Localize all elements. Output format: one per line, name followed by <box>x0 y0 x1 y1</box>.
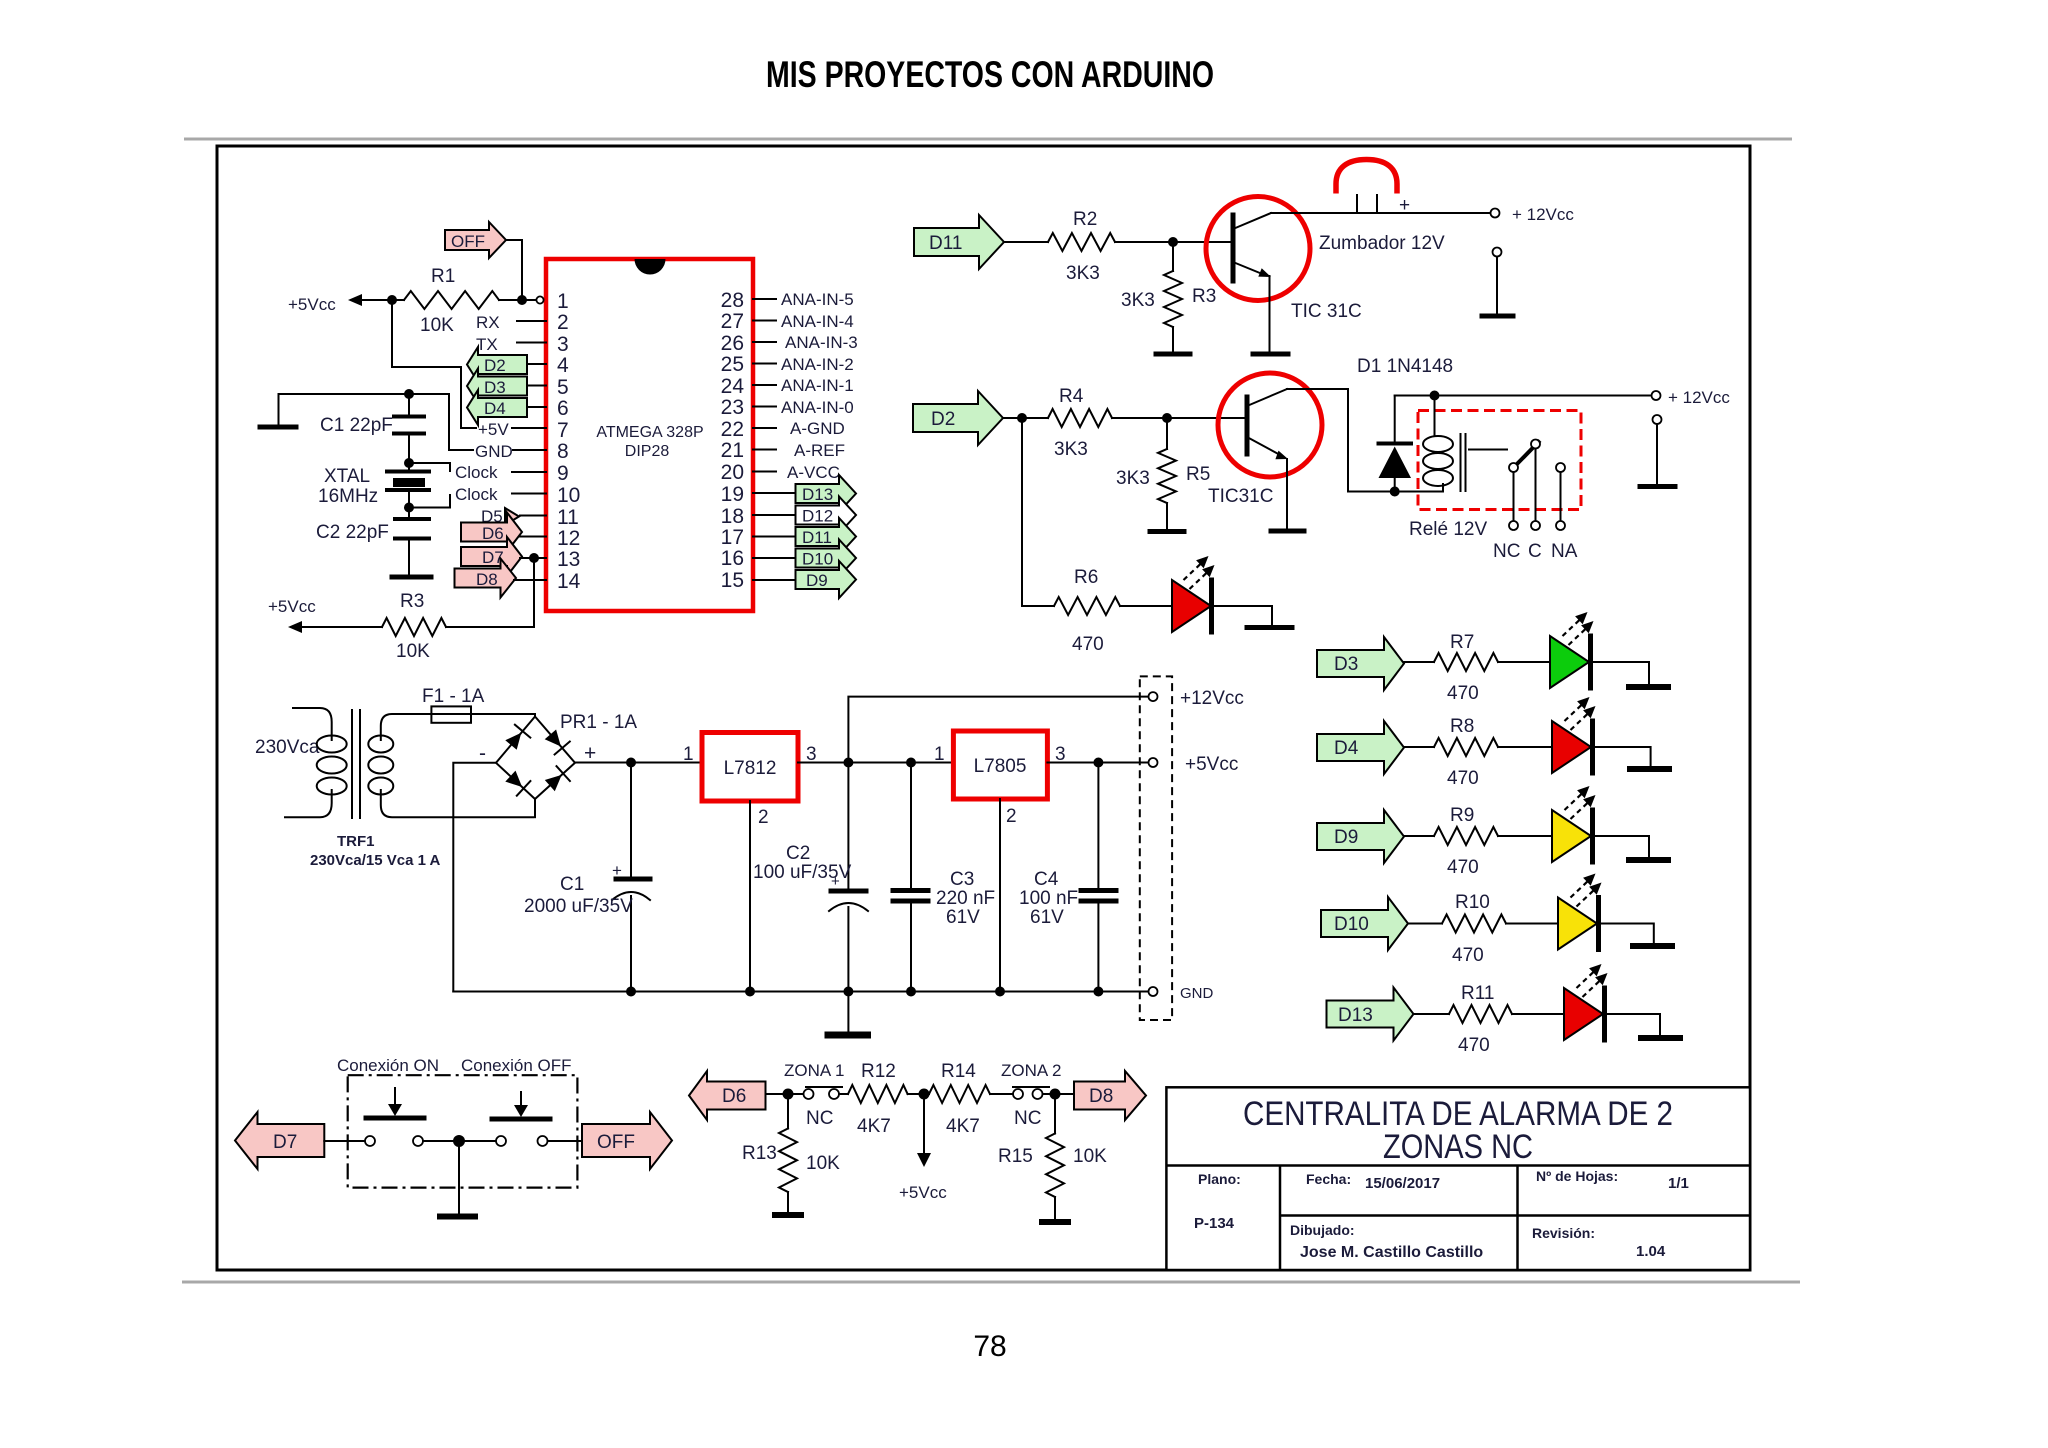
bottom rule <box>182 1281 1800 1284</box>
wire bridge bottom <box>534 799 536 817</box>
svg-text:D11: D11 <box>929 233 962 254</box>
svg-text:XTAL: XTAL <box>324 466 370 487</box>
svg-text:14: 14 <box>557 570 581 593</box>
fuse F1 1A <box>422 686 485 723</box>
svg-text:11: 11 <box>557 506 579 529</box>
svg-text:D2: D2 <box>484 356 506 375</box>
node R13 <box>783 1089 794 1100</box>
svg-text:R8: R8 <box>1450 716 1474 737</box>
svg-text:R1: R1 <box>431 266 455 287</box>
capacitor C3 220nF <box>893 763 995 992</box>
svg-text:16MHz: 16MHz <box>318 486 378 507</box>
svg-text:A-VCC: A-VCC <box>787 463 840 482</box>
node pushbutton common <box>453 1135 465 1147</box>
svg-text:D3: D3 <box>484 378 506 397</box>
ground <box>278 394 280 425</box>
pushbutton Conexion ON <box>365 1088 424 1146</box>
ground pushbuttons <box>437 1214 478 1220</box>
resistor R2 3K3 <box>1048 233 1115 251</box>
wire R6 to LED <box>1120 605 1172 607</box>
relay core <box>1460 434 1462 491</box>
svg-text:78: 78 <box>973 1330 1006 1363</box>
pin numbers right 28-15 <box>721 289 745 592</box>
wire R10 to LED <box>1506 923 1558 925</box>
svg-text:A-REF: A-REF <box>794 441 845 460</box>
node rail C1 <box>626 987 636 997</box>
svg-text:R3: R3 <box>400 591 424 612</box>
svg-text:P-134: P-134 <box>1194 1215 1235 1232</box>
svg-text:+5Vcc: +5Vcc <box>899 1183 947 1202</box>
svg-text:D11: D11 <box>802 528 832 547</box>
LED yellow D10 <box>1558 874 1602 950</box>
wire emitter to ground <box>1269 276 1271 352</box>
arrow OFF output <box>582 1112 672 1169</box>
arrow D3 <box>1317 637 1404 690</box>
pin27 ANA-IN-4 <box>753 320 776 322</box>
svg-text:470: 470 <box>1447 683 1479 704</box>
wire GND branch <box>279 394 474 450</box>
svg-text:D13: D13 <box>802 485 833 504</box>
wire ON to node <box>423 1140 496 1142</box>
resistor R5 3K3 vertical <box>1166 418 1168 449</box>
svg-text:C1 22pF: C1 22pF <box>320 415 393 436</box>
svg-text:R12: R12 <box>861 1061 896 1082</box>
svg-text:ATMEGA 328P: ATMEGA 328P <box>596 424 703 441</box>
wire D9 to R9 <box>1404 835 1434 837</box>
svg-text:4: 4 <box>557 354 569 377</box>
svg-text:R2: R2 <box>1073 209 1097 230</box>
svg-text:8: 8 <box>557 440 569 463</box>
svg-text:C: C <box>1528 541 1542 562</box>
LED yellow D9 <box>1552 786 1596 862</box>
svg-text:Dibujado:: Dibujado: <box>1290 1222 1355 1238</box>
svg-text:4K7: 4K7 <box>857 1116 891 1137</box>
svg-text:Nº de Hojas:: Nº de Hojas: <box>1536 1168 1618 1184</box>
ground main <box>847 992 849 1032</box>
svg-text:Conexión OFF: Conexión OFF <box>461 1056 572 1075</box>
node pin1 <box>517 295 527 305</box>
svg-text:16: 16 <box>721 547 744 570</box>
pushbutton box dash-dot <box>348 1075 578 1187</box>
ground R15 <box>1039 1219 1071 1225</box>
svg-text:NC: NC <box>806 1108 833 1129</box>
svg-text:2: 2 <box>557 311 569 334</box>
arrow D2 input <box>913 391 1003 445</box>
svg-text:10K: 10K <box>806 1153 840 1174</box>
transformer TRF1 <box>255 708 533 869</box>
pushbutton Conexion OFF <box>492 1092 550 1146</box>
svg-text:TIC 31C: TIC 31C <box>1291 301 1362 322</box>
svg-text:100 nF: 100 nF <box>1019 888 1078 909</box>
svg-text:R13: R13 <box>742 1143 777 1164</box>
ground R13 <box>772 1212 804 1218</box>
svg-text:3K3: 3K3 <box>1054 439 1088 460</box>
arrow D5 pin11 <box>481 507 546 526</box>
svg-text:NA: NA <box>1551 541 1578 562</box>
regulator L7812 <box>683 733 817 829</box>
svg-text:25: 25 <box>721 353 744 376</box>
svg-text:230Vca: 230Vca <box>255 737 320 758</box>
node rail C3 <box>906 987 916 997</box>
ground <box>1638 1035 1683 1041</box>
svg-text:R14: R14 <box>941 1061 976 1082</box>
node diode bottom <box>1390 487 1400 497</box>
svg-text:C2 22pF: C2 22pF <box>316 522 389 543</box>
resistor R3 3K3 vertical <box>1172 242 1174 271</box>
svg-text:470: 470 <box>1447 857 1479 878</box>
pin22 A-GND <box>753 427 776 429</box>
wire collector to relay <box>1287 389 1443 492</box>
arrow D7 <box>235 1112 324 1169</box>
wire R7 to LED <box>1498 661 1550 663</box>
pin numbers left 1-14 <box>557 290 581 593</box>
svg-text:26: 26 <box>721 332 744 355</box>
svg-text:3: 3 <box>557 333 569 356</box>
LED red D4 <box>1552 697 1596 773</box>
node +12 branch <box>843 758 853 768</box>
svg-text:D2: D2 <box>931 409 955 430</box>
relay Rele 12V box <box>1418 411 1581 510</box>
wire bridge minus down <box>453 763 496 992</box>
capacitor C4 100nF <box>1019 763 1116 992</box>
relay actuator <box>1469 449 1507 451</box>
wire +12Vcc <box>848 697 1149 763</box>
node D2 branch <box>1017 413 1027 423</box>
svg-text:+5V: +5V <box>478 420 509 439</box>
svg-text:61V: 61V <box>1030 907 1064 928</box>
svg-text:Zumbador 12V: Zumbador 12V <box>1319 233 1445 254</box>
svg-text:17: 17 <box>721 526 744 549</box>
svg-text:15: 15 <box>721 569 744 592</box>
schematic frame <box>217 146 1750 1270</box>
arrow D11 input <box>914 215 1004 269</box>
node base Q1 <box>1168 237 1178 247</box>
wire node to ground <box>458 1141 460 1213</box>
wire R4 to base <box>1112 417 1245 419</box>
node rail C4 <box>1093 987 1103 997</box>
svg-text:Fecha:: Fecha: <box>1306 1171 1351 1187</box>
wire D11 to R2 <box>1004 241 1048 243</box>
relay switch armature <box>1516 441 1540 466</box>
svg-text:Clock: Clock <box>455 485 498 504</box>
arrow D2 pin4 <box>467 347 546 382</box>
svg-text:R10: R10 <box>1455 892 1490 913</box>
svg-text:R7: R7 <box>1450 632 1474 653</box>
svg-text:Relé 12V: Relé 12V <box>1409 519 1487 540</box>
label Clock pin9 <box>409 463 450 471</box>
node base Q2 <box>1162 413 1172 423</box>
wire D2 to R4 <box>1003 417 1048 419</box>
svg-text:R5: R5 <box>1186 464 1210 485</box>
node C3 top <box>906 758 916 768</box>
wire OFF button to arrow <box>548 1140 583 1142</box>
resistor R7 470 <box>1434 653 1498 671</box>
wire R2 to base <box>1115 241 1231 243</box>
wire +5Vcc arrow down <box>923 1094 925 1153</box>
svg-text:L7805: L7805 <box>974 756 1027 777</box>
buzzer Zumbador 12V <box>1319 160 1445 255</box>
node rail 7805 <box>995 987 1005 997</box>
capacitor C1 22pF <box>320 389 424 463</box>
wire +5Vcc rail <box>348 294 362 306</box>
svg-text:C2: C2 <box>786 843 810 864</box>
ground <box>1627 766 1672 772</box>
svg-text:OFF: OFF <box>597 1132 635 1153</box>
svg-text:R6: R6 <box>1074 567 1098 588</box>
resistor R10 470 <box>1442 915 1506 933</box>
svg-text:ZONA 1: ZONA 1 <box>784 1061 844 1080</box>
wire LED D13 ground <box>1605 1014 1661 1035</box>
resistor R4 3K3 <box>1048 409 1112 427</box>
wire emitter to ground <box>1286 459 1288 529</box>
svg-text:10K: 10K <box>1073 1146 1107 1167</box>
svg-text:A-GND: A-GND <box>790 419 845 438</box>
svg-text:10K: 10K <box>396 641 430 662</box>
arrow D11 pin17 <box>753 536 795 538</box>
svg-text:GND: GND <box>1180 985 1214 1002</box>
svg-text:TRF1: TRF1 <box>337 833 375 850</box>
svg-text:F1 - 1A: F1 - 1A <box>422 686 485 707</box>
label Clock pin10 <box>409 495 450 508</box>
svg-text:+5Vcc: +5Vcc <box>288 295 336 314</box>
arrow D4 <box>1317 721 1404 774</box>
svg-text:R3: R3 <box>1192 286 1216 307</box>
svg-text:3K3: 3K3 <box>1066 263 1100 284</box>
arrow D13 out <box>1327 988 1414 1041</box>
wire R11 to LED <box>1512 1013 1564 1015</box>
svg-text:220 nF: 220 nF <box>936 888 995 909</box>
wire LED to ground <box>1212 606 1273 625</box>
svg-text:PR1 - 1A: PR1 - 1A <box>560 712 637 733</box>
wire R14 to zona2 <box>990 1093 1013 1095</box>
pin26 ANA-IN-3 <box>753 341 776 343</box>
svg-text:+5Vcc: +5Vcc <box>1185 754 1238 775</box>
arrow D6 pin12 <box>461 513 546 552</box>
wire D3 to R7 <box>1404 661 1434 663</box>
svg-text:GND: GND <box>475 442 513 461</box>
node R15 <box>1050 1089 1061 1100</box>
arrow D10 <box>1321 897 1408 950</box>
ground <box>1640 484 1675 489</box>
IC U1 ATMEGA 328P DIP28 <box>546 259 753 611</box>
wire top rail to +12Vcc <box>1395 395 1651 397</box>
resistor R11 470 <box>1449 1005 1512 1023</box>
svg-text:3K3: 3K3 <box>1121 290 1155 311</box>
pin24 ANA-IN-1 <box>753 384 776 386</box>
svg-text:D8: D8 <box>476 570 498 589</box>
svg-text:R11: R11 <box>1461 983 1494 1004</box>
arrow D8 <box>1074 1071 1146 1120</box>
svg-text:D13: D13 <box>1338 1005 1373 1026</box>
transistor Q2 TIC31C <box>1208 373 1322 507</box>
svg-text:Conexión ON: Conexión ON <box>337 1056 439 1075</box>
ground <box>1626 684 1671 690</box>
svg-text:ANA-IN-1: ANA-IN-1 <box>781 376 854 395</box>
resistor R6 470 <box>1054 597 1120 615</box>
svg-text:D1 1N4148: D1 1N4148 <box>1357 356 1453 377</box>
svg-text:7: 7 <box>557 419 569 442</box>
svg-text:ZONA 2: ZONA 2 <box>1001 1061 1061 1080</box>
node coil top <box>1430 391 1440 401</box>
svg-text:230Vca/15 Vca 1 A: 230Vca/15 Vca 1 A <box>310 852 441 869</box>
wire R8 to LED <box>1498 746 1552 748</box>
relay coil <box>1423 396 1453 492</box>
arrow D9 pin15 <box>753 579 795 581</box>
svg-text:-: - <box>479 742 486 765</box>
terminal GND <box>1149 987 1158 996</box>
terminal +5Vcc <box>1149 758 1158 767</box>
svg-text:4K7: 4K7 <box>946 1116 980 1137</box>
wire LED D3 ground <box>1591 662 1650 684</box>
svg-text:470: 470 <box>1458 1035 1490 1056</box>
node C1 <box>626 758 636 768</box>
resistor R13 10K <box>787 1094 789 1129</box>
wire L7805 out <box>1047 762 1149 764</box>
svg-text:D10: D10 <box>1334 914 1369 935</box>
svg-text:TX: TX <box>476 335 498 354</box>
resistor R14 4K7 <box>929 1085 990 1103</box>
arrow D13 pin19 <box>753 492 795 494</box>
switch zona2 NC <box>1013 1087 1049 1129</box>
svg-text:NC: NC <box>1014 1108 1041 1129</box>
svg-text:D6: D6 <box>482 524 504 543</box>
svg-text:27: 27 <box>721 310 744 333</box>
switch zona1 NC <box>804 1087 843 1129</box>
terminal +12Vcc <box>1149 692 1158 701</box>
svg-text:+: + <box>1399 195 1410 216</box>
svg-text:12: 12 <box>557 527 580 550</box>
wire R1 to pin1 <box>499 299 536 301</box>
svg-text:2000 uF/35V: 2000 uF/35V <box>524 896 633 917</box>
ground emitter Q2 <box>1271 529 1304 534</box>
svg-text:21: 21 <box>721 439 744 462</box>
node pin13 <box>529 553 539 563</box>
svg-text:D8: D8 <box>1089 1086 1113 1107</box>
svg-text:ANA-IN-3: ANA-IN-3 <box>785 333 858 352</box>
ground emitter Q1 <box>1253 352 1288 357</box>
terminal strip dashed box <box>1140 676 1172 1020</box>
node rail C2 <box>843 987 853 997</box>
terminal ground relay <box>1653 415 1662 424</box>
svg-text:470: 470 <box>1072 634 1104 655</box>
svg-text:ANA-IN-5: ANA-IN-5 <box>781 290 854 309</box>
svg-text:D9: D9 <box>806 571 828 590</box>
wire R9 to LED <box>1498 835 1552 837</box>
arrow D10 pin16 <box>753 557 795 559</box>
capacitor C1 2000uF/35V <box>524 763 650 992</box>
svg-text:MIS PROYECTOS CON ARDUINO: MIS PROYECTOS CON ARDUINO <box>766 54 1214 95</box>
svg-text:D4: D4 <box>1334 738 1359 759</box>
svg-text:1/1: 1/1 <box>1668 1175 1689 1192</box>
svg-text:L7812: L7812 <box>724 758 777 779</box>
svg-text:Revisión:: Revisión: <box>1532 1225 1595 1241</box>
resistor R12 4K7 <box>848 1085 908 1103</box>
pin25 ANA-IN-2 <box>753 363 776 365</box>
svg-text:+5Vcc: +5Vcc <box>268 597 316 616</box>
arrow D12 pin18 <box>753 514 795 516</box>
svg-text:TIC31C: TIC31C <box>1208 486 1273 507</box>
svg-text:6: 6 <box>557 397 569 420</box>
arrow D4 pin6 <box>467 390 546 425</box>
wire LED D9 ground <box>1593 836 1650 857</box>
LED red (zone armed) <box>1172 556 1215 632</box>
wire D4 to R8 <box>1404 746 1434 748</box>
svg-text:470: 470 <box>1447 768 1479 789</box>
svg-text:28: 28 <box>721 289 744 312</box>
relay contact NA <box>1556 463 1565 472</box>
transistor Q1 TIC 31C <box>1206 197 1362 323</box>
arrow D8 pin14 <box>455 559 547 598</box>
svg-text:D3: D3 <box>1334 654 1358 675</box>
svg-text:+ 12Vcc: + 12Vcc <box>1668 388 1730 407</box>
relay contact NC <box>1513 472 1515 521</box>
svg-text:ZONAS NC: ZONAS NC <box>1383 1128 1533 1166</box>
svg-text:Plano:: Plano: <box>1198 1171 1241 1187</box>
svg-text:D4: D4 <box>484 399 506 418</box>
svg-text:2: 2 <box>758 807 769 828</box>
resistor R8 470 <box>1434 738 1498 756</box>
svg-text:R15: R15 <box>998 1146 1033 1167</box>
svg-text:24: 24 <box>721 375 745 398</box>
wire D13 to R11 <box>1414 1013 1450 1015</box>
crystal XTAL 16MHz <box>318 458 429 513</box>
svg-text:1: 1 <box>557 290 569 313</box>
svg-text:10K: 10K <box>420 315 454 336</box>
ground R5 <box>1150 529 1184 534</box>
regulator L7805 <box>934 731 1066 827</box>
svg-text:C3: C3 <box>950 869 974 890</box>
wire L7805 pin2 <box>999 799 1001 992</box>
svg-text:ANA-IN-4: ANA-IN-4 <box>781 312 854 331</box>
svg-text:DIP28: DIP28 <box>625 443 670 460</box>
svg-text:13: 13 <box>557 548 580 571</box>
pin21 A-REF <box>753 449 776 451</box>
svg-text:OFF: OFF <box>451 232 485 251</box>
wire D6 to zona1 <box>766 1093 805 1095</box>
ground R3 <box>1156 352 1190 357</box>
node C4 top <box>1093 758 1103 768</box>
svg-text:Clock: Clock <box>455 463 498 482</box>
ground <box>1630 943 1675 949</box>
svg-text:D7: D7 <box>273 1132 297 1153</box>
svg-text:D10: D10 <box>802 550 833 569</box>
svg-text:1: 1 <box>683 744 694 765</box>
capacitor C2 22pF <box>316 508 431 578</box>
svg-text:C1: C1 <box>560 874 584 895</box>
svg-text:19: 19 <box>721 483 744 506</box>
wire zona2 to D8 <box>1043 1093 1075 1095</box>
pin28 ANA-IN-5 <box>753 298 776 300</box>
wire +5V branch <box>392 300 476 428</box>
svg-text:15/06/2017: 15/06/2017 <box>1365 1175 1440 1192</box>
diode D1 1N4148 <box>1357 356 1453 492</box>
wire fuse to bridge <box>471 714 535 717</box>
svg-text:D9: D9 <box>1334 827 1358 848</box>
arrow D9 <box>1317 810 1404 863</box>
terminal ground Q1 <box>1493 248 1502 257</box>
top rule <box>184 138 1792 141</box>
wire D7 to ON button <box>324 1140 365 1142</box>
svg-text:18: 18 <box>721 505 744 528</box>
arrow D7 pin13 <box>461 537 546 576</box>
resistor R15 10K <box>1054 1094 1056 1134</box>
svg-text:10: 10 <box>557 484 580 507</box>
wire ground rail <box>453 991 1149 993</box>
svg-text:ANA-IN-0: ANA-IN-0 <box>781 398 854 417</box>
wire pin13 to R3 <box>446 558 534 627</box>
svg-text:D6: D6 <box>722 1086 746 1107</box>
arrow D6 <box>689 1071 766 1120</box>
